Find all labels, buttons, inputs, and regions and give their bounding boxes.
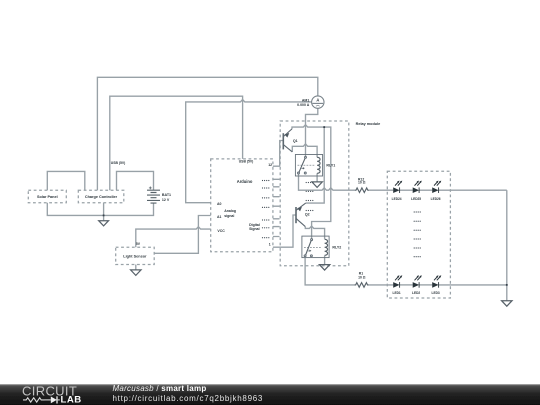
light sensor box — [116, 247, 155, 264]
wire A0 analog signal: Arduino A0 to ammeter left (hop at x=242.6) — [186, 100, 312, 203]
charge controller box — [78, 190, 124, 203]
resistor R1 — [354, 283, 368, 288]
svg-text:A0: A0 — [217, 202, 222, 206]
svg-text:VCC: VCC — [217, 229, 225, 233]
wire LED24 to LED25 — [400, 189, 413, 191]
LED LED3 — [432, 275, 442, 295]
svg-text:Solar Panel: Solar Panel — [37, 195, 58, 199]
wire USB(5V) net: charge controller to ammeter top — [97, 77, 317, 190]
wire right rail down to ground — [506, 190, 508, 301]
svg-text:A1: A1 — [217, 215, 222, 219]
wire from junction to Q2 emitter — [306, 127, 325, 203]
svg-text:12 V: 12 V — [162, 198, 170, 202]
svg-text:Light Sensor: Light Sensor — [123, 255, 147, 259]
node junction at LED right rail — [506, 284, 508, 286]
svg-text:LED1: LED1 — [393, 291, 401, 295]
label BAT1 value — [162, 193, 171, 202]
ground G5 under LED right rail — [502, 301, 512, 307]
wire R1 to LED1 — [369, 284, 393, 286]
wire LED1 to LED2 — [400, 284, 413, 286]
ground G1 under charge controller — [99, 221, 109, 226]
svg-text:USB (5V): USB (5V) — [111, 161, 126, 165]
relay module box — [280, 121, 349, 266]
LED LED25 — [411, 181, 422, 201]
wire RLY2 switch to R1 — [305, 258, 354, 285]
wire LED2 to LED3 — [419, 284, 432, 286]
wire charge controller to battery + — [117, 171, 154, 190]
svg-text:Charge Controller: Charge Controller — [85, 195, 118, 199]
svg-text:Analog: Analog — [224, 209, 236, 213]
LED LED2 — [412, 275, 422, 295]
svg-text:Q1: Q1 — [293, 139, 298, 143]
transistor Q2 — [296, 203, 306, 227]
svg-text:LED2: LED2 — [412, 291, 420, 295]
transistor Q1 — [283, 129, 292, 152]
svg-text:Arduino: Arduino — [237, 179, 253, 184]
LED LED1 — [393, 275, 403, 295]
ground G4 under RLY2 coil — [319, 265, 329, 271]
ammeter AM1 — [312, 96, 324, 108]
svg-text:12: 12 — [268, 163, 272, 167]
wire ammeter bottom to RLY1 common — [306, 108, 318, 156]
wire Q2 collector to RLY2 coil (hop at x=311.6) — [305, 226, 324, 239]
wire solar panel to charge controller — [47, 171, 85, 190]
svg-text:LED26: LED26 — [431, 197, 441, 201]
wire Arduino unconnected pin stubs — [273, 179, 280, 236]
svg-text:LED24: LED24 — [392, 197, 402, 201]
svg-text:LED3: LED3 — [432, 291, 440, 295]
svg-text:10 Ω: 10 Ω — [358, 276, 366, 280]
LED LED26 — [431, 181, 442, 201]
svg-text:USB (5V): USB (5V) — [239, 159, 254, 163]
wire light sensor bottom to ground — [135, 265, 137, 270]
svg-text:1: 1 — [269, 242, 271, 246]
ground G2 under light sensor — [131, 270, 141, 276]
LED array box — [387, 171, 450, 298]
wire Arduino pin 12 to Q1 base — [273, 141, 283, 167]
svg-text:5V: 5V — [136, 242, 141, 246]
svg-text:AM1: AM1 — [302, 98, 309, 102]
ellipsis dots relay module — [306, 182, 314, 211]
wire LED3 to right rail junction — [439, 284, 507, 286]
svg-text:LAB: LAB — [61, 395, 82, 405]
svg-text:LED25: LED25 — [411, 197, 421, 201]
svg-text:RLY2: RLY2 — [332, 246, 341, 250]
wire 5V rail: Q1 emitter to Q2 emitter and RLY2 common (hops) — [292, 125, 331, 239]
svg-text:Relay module: Relay module — [356, 122, 381, 126]
ellipsis dots Arduino pins — [262, 180, 270, 238]
Arduino U1 box — [211, 159, 273, 252]
battery BAT1 — [147, 187, 160, 204]
svg-text:A: A — [316, 97, 319, 102]
svg-text:RLY1: RLY1 — [326, 164, 335, 168]
wire USB(5V) net: charge controller to Arduino USB pin — [110, 96, 243, 190]
wire charge controller bottom to ground — [103, 203, 105, 221]
relay RLY1 — [295, 155, 322, 177]
svg-text:10 Ω: 10 Ω — [358, 180, 366, 184]
svg-text:http://circuitlab.com/c7q2bbjk: http://circuitlab.com/c7q2bbjkh8963 — [113, 394, 264, 403]
footer bar — [0, 384, 540, 405]
wire RLY1 coil bottom to ground — [316, 173, 318, 182]
ground G3 under RLY1 coil — [312, 182, 322, 188]
LED LED24 — [392, 181, 403, 201]
wire Arduino pin 1 to Q2 base — [273, 215, 296, 247]
wire ground rail: solar panel / charge controller / battery bottoms — [47, 203, 153, 216]
node junction at 5V rail split — [323, 126, 325, 128]
wire RLY2 coil bottom to ground — [324, 256, 326, 265]
label R1 value — [358, 272, 366, 280]
svg-text:Q2: Q2 — [305, 212, 310, 216]
svg-text:Marcusasb / smart lamp: Marcusasb / smart lamp — [113, 384, 207, 393]
svg-text:BAT1: BAT1 — [162, 193, 171, 197]
svg-text:0.000 A: 0.000 A — [297, 103, 310, 107]
wire light sensor out to Arduino A1 — [154, 216, 211, 254]
wire RLY1 switch to R12 (hops at x=324.2, x=330.8) — [299, 174, 355, 190]
resistor R12 — [355, 188, 369, 193]
wire LED25 to LED26 — [419, 189, 432, 191]
svg-text:Signal: Signal — [249, 227, 260, 231]
svg-text:signal: signal — [224, 214, 234, 218]
relay RLY2 — [302, 236, 329, 258]
wire Q1 collector to RLY1 coil (hop at x=305.5) — [292, 144, 317, 157]
CircuitLab logo — [22, 384, 82, 405]
ellipsis dots LED array — [414, 211, 421, 257]
wire LED26 to right rail — [439, 189, 507, 191]
wire R12 to LED24 — [369, 189, 393, 191]
node junction at charge controller ground — [103, 215, 105, 217]
label R12 value — [358, 177, 366, 184]
solar panel SP1 box — [28, 190, 66, 203]
wire 5V: light sensor to Arduino VCC (hop at x=198.4) — [136, 227, 211, 248]
